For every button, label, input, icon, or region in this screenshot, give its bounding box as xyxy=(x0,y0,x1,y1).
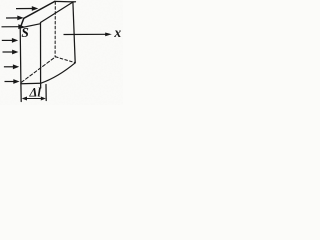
beam arrows xyxy=(2,6,39,84)
hidden back vertical edge B-B' (dashed) xyxy=(54,2,56,57)
slab diagram: beam of arrows hitting slab of area S, thickness dl, along x axis xyxy=(0,0,123,105)
slab top-left edge A-B xyxy=(20,1,55,28)
x axis arrow xyxy=(64,33,112,37)
slab top back edge B-C xyxy=(55,0,76,3)
hidden bottom left edge A'-B' (dashed) xyxy=(21,57,55,83)
slab right back edge C-D xyxy=(73,2,75,63)
slab front right vertical edge E-F xyxy=(40,23,42,89)
dimension tick right xyxy=(45,85,47,101)
slab top right slant edge F-C xyxy=(41,2,74,23)
slab bottom right edge D-E xyxy=(41,63,76,84)
dimension double arrow xyxy=(22,97,46,101)
slab front left vertical edge A-A' xyxy=(20,28,21,102)
hidden bottom back edge B'-C' (dashed) xyxy=(56,57,75,63)
slab front top edge F-A xyxy=(20,24,40,28)
slab front bottom edge A'-E xyxy=(21,82,41,84)
